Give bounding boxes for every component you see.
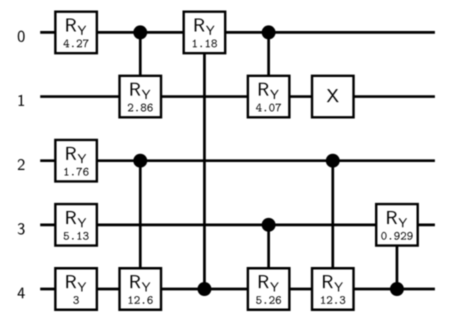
wire qubit 0 xyxy=(40,31,435,33)
control dot on qubit 4 layer 2 xyxy=(197,282,211,296)
value label 5.26 xyxy=(256,296,281,304)
value label 12.3 xyxy=(321,296,345,304)
qubit label 2 xyxy=(18,159,25,170)
value label 5.13 xyxy=(64,232,89,240)
gate U CRY(5.26) target box on qubit 4 xyxy=(248,268,289,310)
wire qubit 4 xyxy=(40,288,435,290)
control dot on qubit 2 layer 4 xyxy=(326,154,340,168)
value label 0.929 xyxy=(381,232,412,240)
gate label R_Y on qubit 4 xyxy=(66,275,86,291)
gate label R_Y on qubit 4 xyxy=(259,275,279,291)
gate U CRY(4.07) target box on qubit 1 xyxy=(248,76,289,118)
wire qubit 1 xyxy=(40,96,435,98)
gate U CRY(0.929) target box on qubit 3 xyxy=(376,204,417,246)
gate U RY(5.13) box on qubit 3 xyxy=(55,204,96,246)
control dot on qubit 4 layer 5 xyxy=(390,282,404,296)
value label 4.07 xyxy=(256,104,281,112)
wire control link CRY(0.929) layer 5 xyxy=(396,225,398,289)
value label 2.86 xyxy=(128,104,153,112)
gate label R_Y on qubit 0 xyxy=(66,19,86,35)
gate label R_Y on qubit 3 xyxy=(387,211,407,227)
gate label R_Y on qubit 4 xyxy=(131,275,151,291)
wire control link CRY(12.6) layer 1 xyxy=(139,161,141,289)
gate U RY(3) box on qubit 4 xyxy=(55,268,96,310)
gate label R_Y on qubit 1 xyxy=(259,83,279,99)
gate label R_Y on qubit 4 xyxy=(323,275,343,291)
value label 12.6 xyxy=(129,296,153,304)
control dot on qubit 0 layer 3 xyxy=(262,25,276,39)
qubit label 4 xyxy=(18,288,25,299)
wire control link CRY(2.86) layer 1 xyxy=(139,32,141,96)
wire control link CRY(5.26) layer 3 xyxy=(268,225,270,289)
gate U RY(1.76) box on qubit 2 xyxy=(55,140,96,182)
gate U CRY(12.3) target box on qubit 4 xyxy=(312,268,353,310)
qubit label 3 xyxy=(18,223,25,234)
control dot on qubit 0 layer 1 xyxy=(133,25,147,39)
gate U CRY(12.6) target box on qubit 4 xyxy=(120,268,161,310)
value label 4.27 xyxy=(63,39,88,47)
gate label R_Y on qubit 2 xyxy=(66,147,86,163)
gate U CRY(2.86) target box on qubit 1 xyxy=(120,76,161,118)
gate U CRY(1.18) target box on qubit 0 xyxy=(184,12,225,54)
wire qubit 3 xyxy=(40,224,435,226)
control dot on qubit 3 layer 3 xyxy=(262,218,276,232)
qubit label 1 xyxy=(19,95,25,106)
wire qubit 2 xyxy=(40,160,435,162)
gate X box on qubit 1 xyxy=(312,76,353,118)
value label 1.76 xyxy=(64,168,88,176)
wire control link CRY(1.18) layer 2 xyxy=(203,32,205,289)
gate label X xyxy=(327,89,339,102)
gate label R_Y on qubit 0 xyxy=(195,19,215,35)
value label 1.18 xyxy=(193,39,217,47)
control dot on qubit 2 layer 1 xyxy=(133,154,147,168)
wire control link CRY(12.3) layer 4 xyxy=(332,161,334,289)
qubit label 0 xyxy=(18,31,25,42)
wire control link CRY(4.07) layer 3 xyxy=(268,32,270,96)
gate U RY(4.27) box on qubit 0 xyxy=(55,12,96,54)
gate label R_Y on qubit 1 xyxy=(131,83,151,99)
gate label R_Y on qubit 3 xyxy=(66,211,86,227)
value label 3 xyxy=(73,296,78,304)
